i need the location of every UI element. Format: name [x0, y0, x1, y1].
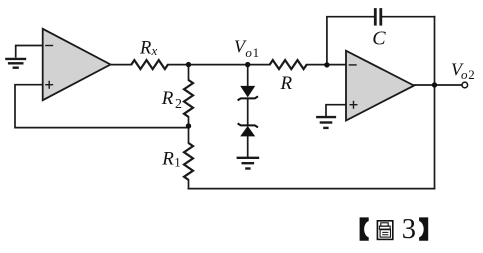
svg-text:x: x: [151, 43, 158, 58]
svg-text:2: 2: [468, 67, 475, 82]
svg-text:1: 1: [253, 45, 260, 60]
svg-text:R: R: [139, 38, 151, 58]
svg-text:C: C: [372, 28, 386, 50]
svg-text:o: o: [461, 67, 468, 82]
svg-text:R: R: [161, 149, 174, 170]
svg-text:o: o: [245, 45, 252, 60]
svg-text:3: 3: [402, 214, 416, 245]
svg-text:2: 2: [175, 97, 182, 112]
svg-text:1: 1: [174, 155, 181, 170]
svg-text:R: R: [161, 88, 174, 109]
svg-text:R: R: [280, 73, 293, 94]
